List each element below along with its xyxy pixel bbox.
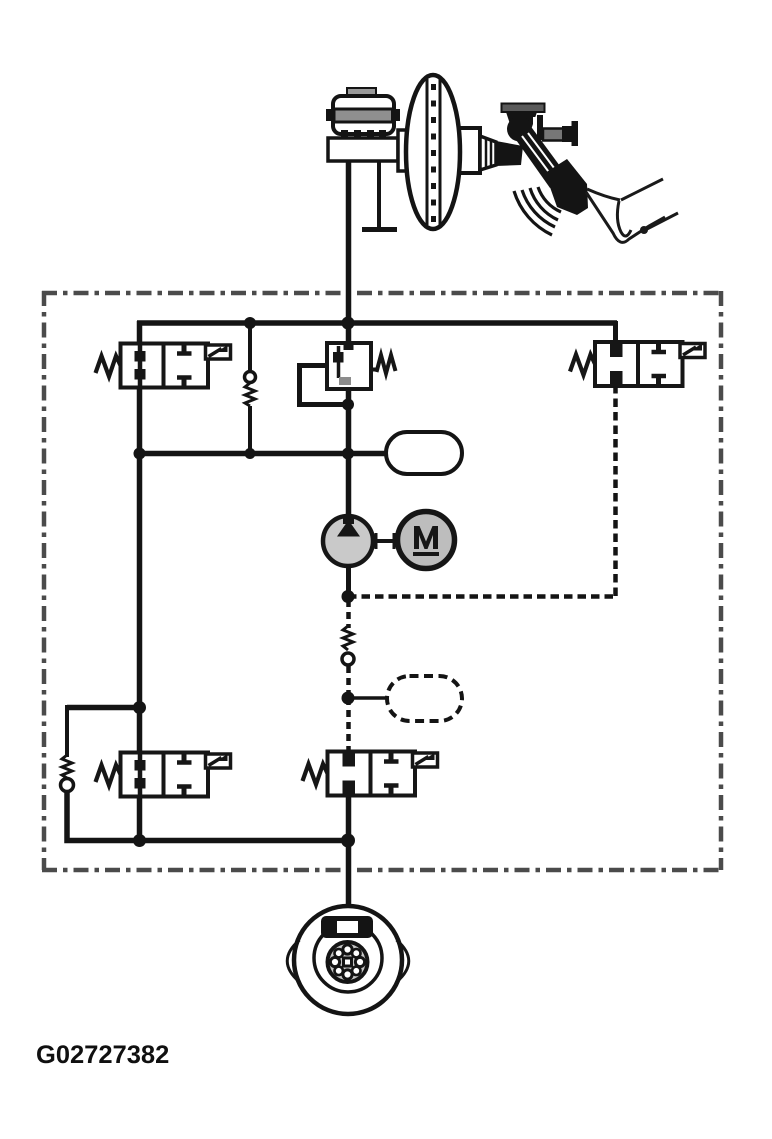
pipe: branch to accumulator A2 [348, 696, 392, 700]
pedal pad with heel shadow [545, 159, 588, 215]
junction: mid manifold / left branch [134, 448, 146, 460]
wheel: left tyre edge arc [287, 940, 299, 982]
junction: accumulator 2 branch [342, 692, 355, 705]
check valve CV2 spring [343, 626, 353, 650]
pipe: right branch drop to right valve [613, 321, 618, 344]
pipe: check valve branch upper part [248, 323, 252, 372]
pipe: dashed line below junction [346, 600, 351, 628]
pipe: dashed line down to valve V4 [346, 698, 351, 754]
pipe: dashed return line horizontal [348, 594, 616, 599]
pipe: check valve branch lower part [248, 406, 252, 455]
check valve CV2 ball [342, 653, 354, 665]
pipe: dashed line to lower junction [346, 666, 351, 700]
master cylinder mounting flange [398, 130, 408, 171]
pressure regulator valve body [327, 343, 371, 389]
wheel: rim inner circle [314, 924, 382, 992]
pump P1 [323, 515, 373, 566]
junction: mid manifold / check branch [245, 448, 256, 459]
master cylinder reservoir cap [347, 88, 376, 97]
regulator valve spring (right side) [371, 355, 396, 374]
wheel: right tyre edge arc [397, 940, 409, 982]
junction: bottom manifold / left branch [133, 834, 146, 847]
check valve CV3 ball [61, 779, 74, 792]
reservoir ports [341, 130, 348, 143]
junction: pump outlet / return line [342, 590, 355, 603]
pipe: mid manifold line to accumulator [139, 451, 390, 457]
accumulator A1 (solid capsule) [386, 432, 462, 474]
solenoid valve V3 (bottom left) [96, 753, 231, 797]
pipe: pump outlet down [346, 564, 351, 600]
check valve CV1 spring [245, 383, 255, 406]
junction: regulator loop to main line [342, 399, 354, 411]
pipe: top manifold line [137, 320, 617, 326]
pipe: left loop vertical lower and bottom manifold [67, 791, 350, 841]
junction: top manifold / main line [342, 317, 355, 330]
check valve CV3 spring [62, 755, 72, 778]
brake caliper on wheel [321, 916, 373, 938]
pipe: left loop vertical upper [65, 705, 69, 757]
pedal bracket [502, 104, 579, 147]
pipe: left branch vertical [137, 321, 143, 842]
brake booster body [406, 75, 460, 229]
solenoid valve V2 (top right) [570, 342, 705, 386]
figure number label [37, 1045, 168, 1063]
pipe: dashed return line vertical up to V2 [613, 386, 618, 596]
enclosure dash-dot border of hydraulic unit [42, 291, 721, 870]
foot / shoe outline [586, 179, 678, 242]
pump-motor shaft [373, 533, 397, 549]
wheel: tyre outer circle [294, 906, 402, 1014]
pedal motion arcs [514, 187, 561, 235]
junction: left branch / loop top [133, 701, 146, 714]
pipe: main line from master cylinder down into unit [346, 160, 352, 325]
shoe lace knot [640, 226, 648, 234]
booster push rod cone [480, 136, 496, 170]
junction: top manifold / check branch [244, 317, 256, 329]
push rod [496, 141, 523, 166]
junction: mid manifold / main line [342, 448, 354, 460]
check valve CV1 ball [245, 372, 256, 383]
regulator valve loop (left bypass) [300, 366, 349, 405]
bracket rod with foot [362, 161, 397, 230]
pipe: left loop top [67, 705, 142, 711]
solenoid valve V1 (top left) [96, 344, 231, 388]
wheel hub [328, 942, 368, 982]
pedal arm [514, 128, 568, 188]
booster output rod housing [458, 128, 480, 173]
solenoid valve V4 (bottom centre) [303, 752, 438, 796]
master cylinder reservoir [326, 96, 400, 134]
pipe: main vertical through regulator to pump [346, 321, 352, 519]
accumulator A2 (dashed capsule) [387, 676, 462, 721]
motor M1 [398, 512, 455, 569]
master cylinder body [328, 138, 398, 161]
pipe: V4 outlet down to wheel [346, 797, 352, 908]
junction: bottom manifold / main line [341, 834, 355, 848]
